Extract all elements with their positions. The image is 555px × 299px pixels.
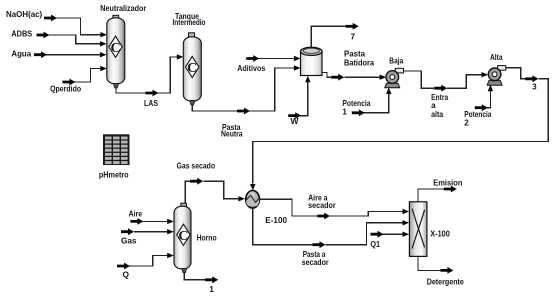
wire Q1 line	[380, 233, 404, 235]
stream arrow W	[288, 112, 301, 119]
wire Gas line	[134, 231, 168, 233]
wire Pasta Neutra line	[192, 68, 294, 111]
svg-text:Horno: Horno	[197, 233, 217, 242]
arrowhead LAS into Tanque	[177, 54, 184, 59]
svg-text:Emision: Emision	[433, 178, 462, 187]
svg-text:Qperdido: Qperdido	[50, 84, 81, 93]
svg-text:Agua: Agua	[11, 50, 31, 59]
svg-text:C: C	[111, 41, 121, 56]
svg-text:2: 2	[464, 119, 469, 128]
arrowhead Qperdido inlet	[100, 66, 107, 71]
svg-text:E-100: E-100	[265, 216, 287, 225]
stream arrow Pasta a secador	[313, 241, 326, 248]
stream arrow 7	[346, 23, 359, 30]
svg-text:Intermedio: Intermedio	[173, 18, 206, 27]
wire Entra a alta line	[404, 71, 482, 88]
arrowhead Gas into Horno	[167, 229, 174, 234]
svg-text:NaOH(ac): NaOH(ac)	[6, 10, 42, 19]
arrowhead Potencia 1 into pump	[386, 87, 391, 94]
arrowhead ADBS inlet	[100, 41, 107, 46]
svg-text:secador: secador	[308, 201, 336, 210]
svg-text:Q: Q	[123, 270, 130, 279]
stream arrow Emision	[444, 186, 457, 193]
vessel Horno	[174, 203, 191, 272]
stream arrow Pasta Neutra	[237, 108, 250, 115]
svg-text:X-100: X-100	[430, 229, 450, 238]
wire LAS line	[116, 57, 177, 93]
wire Potencia 2 line	[486, 90, 490, 107]
stream arrow LAS	[146, 90, 159, 97]
svg-text:alta: alta	[431, 110, 443, 119]
pump Baja	[385, 68, 404, 88]
svg-text:Aire: Aire	[129, 209, 143, 218]
instrument pHmetro grid	[103, 134, 130, 165]
svg-text:Gas secado: Gas secado	[177, 162, 215, 171]
arrowhead Q1 into X-100	[403, 232, 410, 237]
wire stream 1 line	[184, 273, 205, 280]
wire Aditivos line	[258, 58, 294, 60]
wire Aire a secador line	[260, 199, 403, 216]
svg-text:C: C	[178, 229, 188, 244]
arrowhead Pasta a secador into X-100	[403, 220, 410, 225]
stream arrow Detergente	[440, 267, 453, 274]
stream arrow NaOH(ac)	[44, 15, 57, 22]
svg-text:Detergente: Detergente	[427, 277, 465, 286]
wire Pasta a secador line	[253, 209, 404, 245]
stream arrow 3	[525, 75, 538, 82]
svg-text:Alta: Alta	[490, 53, 503, 62]
arrowhead NaOH inlet	[100, 32, 107, 37]
wire Pasta Batidora line	[322, 72, 381, 77]
arrowhead W into tank bottom	[305, 76, 310, 83]
stream arrow Q	[117, 263, 130, 270]
stream arrow Agua	[34, 51, 47, 58]
stream arrow Pasta Batidora	[331, 74, 344, 81]
wire Gas secado line	[185, 181, 238, 203]
wire Detergente line	[418, 256, 440, 270]
vessel Neutralizador	[107, 15, 125, 88]
stream arrow Potencia 1	[352, 109, 365, 116]
svg-text:Q1: Q1	[370, 240, 380, 249]
stream arrow Aire	[130, 218, 143, 225]
unit X-100 secador	[409, 202, 427, 257]
wire stream 3 recycle line	[253, 68, 548, 184]
svg-text:1: 1	[342, 107, 347, 116]
svg-text:Neutra: Neutra	[221, 129, 243, 138]
arrowhead into pump Baja	[380, 75, 387, 80]
svg-text:Neutralizador: Neutralizador	[100, 4, 147, 13]
svg-text:1: 1	[209, 285, 214, 294]
wire Emision line	[418, 189, 444, 202]
svg-text:Batidora: Batidora	[344, 58, 374, 67]
wire ADBS feed line	[48, 35, 100, 44]
svg-text:a: a	[431, 101, 436, 110]
arrowhead into pump Alta	[482, 72, 489, 77]
arrowhead Pasta Neutra into tank	[294, 65, 301, 70]
arrowhead Q into Horno	[167, 253, 174, 258]
arrowhead 3 into E-100	[250, 184, 255, 191]
stream arrow Gas	[121, 228, 134, 235]
svg-text:Pasta: Pasta	[344, 50, 365, 59]
vessel Tanque Intermedio	[183, 33, 201, 105]
wire Q line	[129, 256, 168, 267]
svg-text:3: 3	[532, 83, 537, 92]
arrowhead Potencia 2 into pump	[488, 85, 493, 92]
arrowhead Gas secado into E-100	[238, 196, 245, 201]
svg-text:secador: secador	[302, 258, 330, 267]
wire Aire line	[142, 220, 168, 222]
wire Agua feed line	[46, 54, 100, 56]
stream arrow Potencia 2	[475, 104, 488, 111]
stream arrow Aire a secador	[317, 213, 330, 220]
wire stream 7 line	[311, 26, 346, 47]
svg-text:7: 7	[351, 33, 356, 42]
svg-text:pHmetro: pHmetro	[99, 170, 129, 179]
svg-text:W: W	[291, 117, 299, 126]
svg-text:LAS: LAS	[144, 99, 158, 108]
stream arrow Qperdido	[62, 79, 75, 86]
wire Qperdido feed line	[74, 69, 100, 83]
svg-text:ADBS: ADBS	[11, 29, 32, 38]
svg-text:Baja: Baja	[389, 56, 403, 65]
pump Alta	[487, 66, 506, 86]
wire NaOH(ac) feed line	[56, 18, 101, 35]
svg-text:Aditivos: Aditivos	[237, 64, 265, 73]
stream arrow Gas secado	[190, 178, 203, 185]
arrowhead Aire a secador into X-100	[403, 209, 410, 214]
svg-text:Gas: Gas	[121, 236, 137, 245]
stream arrow Aditivos	[246, 55, 259, 62]
svg-text:C: C	[187, 61, 197, 76]
vessel Pasta Batidora tank	[301, 47, 323, 75]
wire W line	[300, 82, 308, 116]
stream arrow Q1	[371, 231, 384, 238]
arrowhead Aditivos into tank	[294, 56, 301, 61]
arrowhead Agua inlet	[100, 52, 107, 57]
stream arrow Entra a alta	[434, 85, 447, 92]
wire Potencia 1 line	[363, 93, 389, 113]
stream arrow 1	[205, 276, 218, 283]
stream arrow ADBS	[37, 32, 50, 39]
heat exchanger E-100	[246, 191, 260, 209]
arrowhead Aire into Horno	[167, 219, 174, 224]
